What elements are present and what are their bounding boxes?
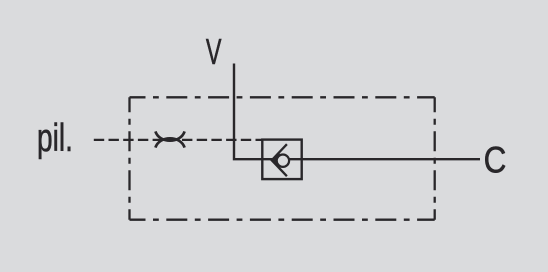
check valve square body <box>262 140 301 180</box>
svg-text:V: V <box>206 32 222 72</box>
enclosure dash-dot boundary: bottom edge <box>130 219 435 221</box>
svg-text:pil.: pil. <box>37 117 73 161</box>
enclosure dash-dot boundary: left edge <box>128 97 130 219</box>
restrictor (pilot orifice) bottom arc <box>155 138 184 147</box>
enclosure dash-dot boundary: right edge <box>434 97 436 219</box>
svg-text:C: C <box>484 140 507 181</box>
pilot line (dashed) from pil. to valve <box>94 139 262 141</box>
check valve seat lines <box>272 144 287 176</box>
enclosure dash-dot boundary: top edge <box>130 96 435 98</box>
check valve seat wedge fill <box>271 153 279 167</box>
wire: port V line down, then flow line right to port C <box>234 64 480 160</box>
check valve ball (circle) <box>277 155 289 167</box>
restrictor (pilot orifice) top arc <box>155 131 184 140</box>
